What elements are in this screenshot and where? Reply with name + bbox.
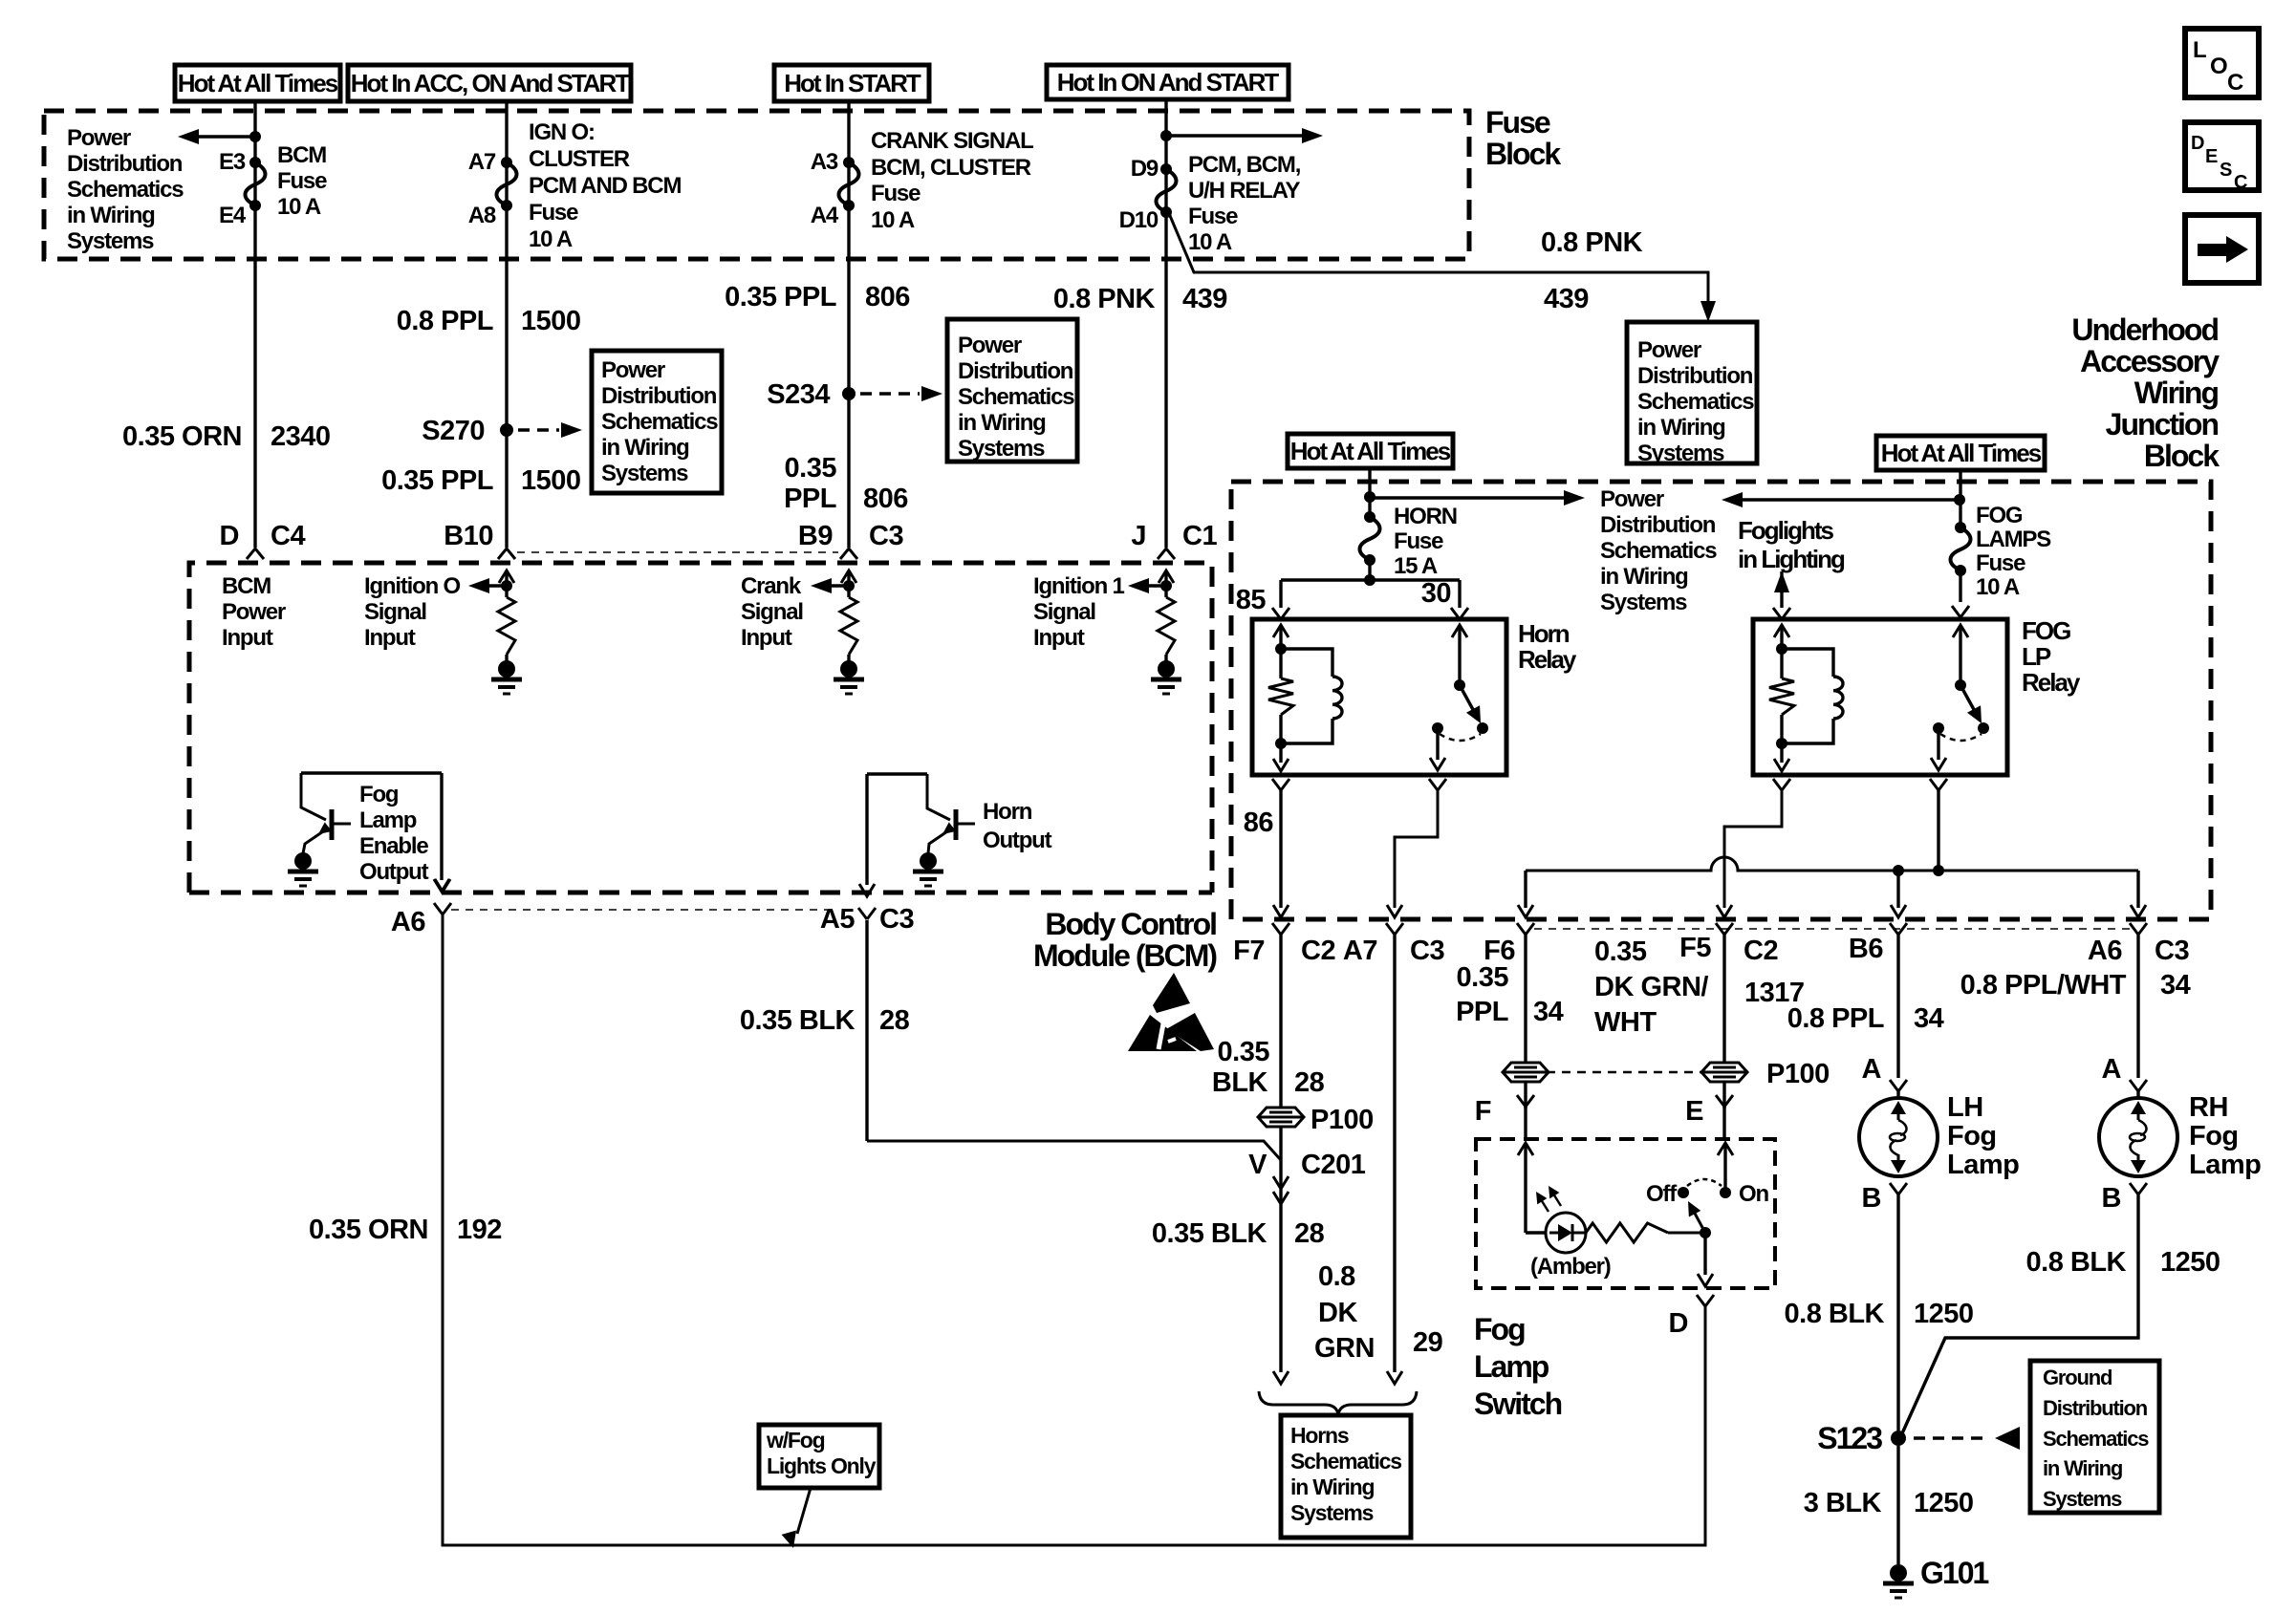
svg-text:0.35 ORN: 0.35 ORN: [309, 1215, 428, 1245]
svg-text:1250: 1250: [1914, 1488, 1974, 1518]
svg-text:FOG: FOG: [2022, 616, 2070, 645]
svg-text:1500: 1500: [521, 465, 581, 496]
svg-text:w/Fog: w/Fog: [766, 1428, 825, 1453]
svg-text:Fuse: Fuse: [1394, 528, 1443, 554]
svg-text:A4: A4: [811, 203, 839, 228]
svg-text:in Wiring: in Wiring: [1637, 415, 1725, 441]
svg-text:806: 806: [865, 282, 910, 312]
svg-text:Input: Input: [364, 625, 416, 651]
svg-text:Block: Block: [2144, 439, 2220, 473]
svg-text:0.8 BLK: 0.8 BLK: [1785, 1299, 1885, 1329]
svg-text:Fuse: Fuse: [529, 200, 578, 226]
svg-text:Horn: Horn: [1518, 619, 1570, 648]
svg-text:Body Control: Body Control: [1045, 907, 1216, 941]
svg-text:A5: A5: [820, 904, 855, 935]
svg-text:E4: E4: [219, 203, 247, 228]
svg-text:PCM, BCM,: PCM, BCM,: [1188, 152, 1301, 178]
svg-text:10 A: 10 A: [871, 207, 915, 233]
svg-text:0.35: 0.35: [1218, 1037, 1270, 1067]
svg-text:Input: Input: [1033, 625, 1085, 651]
svg-text:Fuse: Fuse: [1976, 550, 2025, 576]
svg-text:in Wiring: in Wiring: [958, 410, 1046, 436]
svg-text:Output: Output: [983, 828, 1052, 853]
svg-text:BCM: BCM: [277, 142, 326, 168]
svg-text:Systems: Systems: [1290, 1500, 1374, 1525]
svg-text:Power: Power: [67, 125, 131, 151]
svg-text:Distribution: Distribution: [958, 358, 1073, 384]
svg-text:Block: Block: [1485, 137, 1561, 171]
svg-text:Ignition O: Ignition O: [364, 573, 461, 599]
svg-text:3 BLK: 3 BLK: [1804, 1488, 1882, 1518]
svg-text:Power: Power: [222, 599, 286, 625]
svg-text:C3: C3: [2155, 936, 2189, 966]
svg-text:29: 29: [1413, 1327, 1443, 1358]
svg-text:Distribution: Distribution: [67, 151, 183, 177]
svg-text:0.8 PNK: 0.8 PNK: [1541, 227, 1643, 258]
svg-text:D: D: [1669, 1308, 1688, 1339]
svg-text:in Lighting: in Lighting: [1738, 545, 1845, 573]
svg-text:34: 34: [1533, 997, 1564, 1027]
svg-text:PCM AND BCM: PCM AND BCM: [529, 173, 681, 199]
svg-text:Distribution: Distribution: [1637, 363, 1753, 389]
svg-text:Lamp: Lamp: [359, 807, 417, 833]
svg-text:Wiring: Wiring: [2134, 376, 2219, 410]
svg-text:BCM, CLUSTER: BCM, CLUSTER: [871, 155, 1031, 181]
svg-text:439: 439: [1544, 284, 1589, 314]
svg-text:Hot At All Times: Hot At All Times: [178, 69, 338, 97]
svg-text:RH: RH: [2189, 1092, 2228, 1123]
svg-text:Systems: Systems: [2043, 1487, 2122, 1511]
svg-text:1250: 1250: [2160, 1247, 2220, 1278]
svg-text:PPL: PPL: [784, 484, 836, 514]
svg-text:S234: S234: [767, 379, 830, 410]
svg-text:Schematics: Schematics: [1290, 1449, 1401, 1474]
svg-text:0.35 BLK: 0.35 BLK: [740, 1005, 856, 1036]
svg-text:B: B: [1862, 1183, 1881, 1214]
svg-text:A3: A3: [811, 149, 838, 175]
svg-text:Ignition 1: Ignition 1: [1033, 573, 1125, 599]
svg-text:Output: Output: [359, 859, 429, 885]
svg-text:Horn: Horn: [983, 799, 1032, 825]
svg-text:in Wiring: in Wiring: [67, 203, 155, 228]
svg-text:Lamp: Lamp: [2189, 1150, 2261, 1180]
svg-text:D10: D10: [1119, 207, 1159, 233]
svg-text:Relay: Relay: [1518, 645, 1577, 674]
svg-text:34: 34: [2160, 970, 2191, 1001]
svg-text:O: O: [2210, 54, 2227, 79]
svg-text:Systems: Systems: [67, 228, 154, 254]
svg-text:0.8 PNK: 0.8 PNK: [1053, 284, 1156, 314]
svg-text:B10: B10: [444, 521, 493, 551]
svg-text:DK GRN/: DK GRN/: [1594, 972, 1708, 1002]
svg-text:10 A: 10 A: [1976, 574, 2020, 600]
svg-text:L: L: [2193, 37, 2206, 63]
svg-text:LH: LH: [1947, 1092, 1983, 1123]
svg-text:C: C: [2234, 172, 2247, 193]
svg-text:Accessory: Accessory: [2080, 344, 2220, 378]
svg-text:(Amber): (Amber): [1530, 1254, 1611, 1280]
svg-text:1250: 1250: [1914, 1299, 1974, 1329]
svg-text:15 A: 15 A: [1394, 553, 1438, 579]
svg-text:34: 34: [1914, 1003, 1944, 1034]
svg-text:P100: P100: [1310, 1105, 1374, 1135]
svg-text:Fog: Fog: [2189, 1121, 2239, 1151]
svg-text:Schematics: Schematics: [1600, 538, 1717, 564]
svg-text:0.8 PPL: 0.8 PPL: [397, 306, 493, 336]
svg-text:G101: G101: [1920, 1556, 1988, 1590]
svg-text:FOG: FOG: [1976, 503, 2023, 528]
svg-text:Lamp: Lamp: [1947, 1150, 2019, 1180]
svg-text:C3: C3: [869, 521, 903, 551]
svg-text:CRANK SIGNAL: CRANK SIGNAL: [871, 128, 1033, 154]
svg-text:Hot In ON And START: Hot In ON And START: [1057, 68, 1280, 97]
svg-text:A7: A7: [1343, 936, 1377, 966]
svg-text:Foglights: Foglights: [1738, 516, 1834, 545]
svg-text:Hot At All Times: Hot At All Times: [1290, 437, 1451, 465]
svg-text:Signal: Signal: [364, 599, 426, 625]
svg-text:0.35 BLK: 0.35 BLK: [1152, 1218, 1267, 1249]
svg-text:Hot In ACC, ON And START: Hot In ACC, ON And START: [351, 69, 631, 97]
svg-text:C3: C3: [879, 904, 914, 935]
svg-text:Ground: Ground: [2043, 1366, 2112, 1389]
svg-text:Schematics: Schematics: [1637, 389, 1754, 415]
svg-text:Junction: Junction: [2106, 407, 2219, 441]
svg-text:Underhood: Underhood: [2071, 312, 2218, 347]
svg-text:0.8 PPL: 0.8 PPL: [1787, 1003, 1884, 1034]
svg-text:Systems: Systems: [958, 436, 1045, 462]
svg-text:DK: DK: [1318, 1298, 1357, 1328]
svg-text:Hot In START: Hot In START: [784, 69, 921, 97]
svg-text:28: 28: [1294, 1218, 1325, 1249]
svg-text:Signal: Signal: [1033, 599, 1095, 625]
svg-text:Relay: Relay: [2022, 668, 2081, 697]
svg-text:IGN O:: IGN O:: [529, 119, 595, 145]
svg-text:Power: Power: [1637, 337, 1701, 363]
svg-text:Distribution: Distribution: [2043, 1396, 2148, 1420]
svg-text:B6: B6: [1849, 934, 1883, 964]
svg-text:D9: D9: [1131, 156, 1159, 182]
svg-text:Crank: Crank: [741, 573, 802, 599]
svg-text:E: E: [2205, 146, 2218, 167]
svg-text:Fuse: Fuse: [1485, 105, 1550, 140]
svg-text:Fog: Fog: [359, 782, 399, 807]
svg-text:0.8 PPL/WHT: 0.8 PPL/WHT: [1960, 970, 2127, 1001]
svg-text:A7: A7: [468, 149, 496, 175]
svg-text:Horns: Horns: [1290, 1423, 1349, 1448]
svg-text:Schematics: Schematics: [601, 409, 718, 435]
svg-text:0.35 PPL: 0.35 PPL: [725, 282, 836, 312]
svg-text:Systems: Systems: [1637, 441, 1724, 466]
svg-text:C: C: [2227, 70, 2243, 96]
svg-text:439: 439: [1182, 284, 1227, 314]
svg-text:A6: A6: [391, 907, 425, 937]
svg-text:GRN: GRN: [1314, 1333, 1375, 1364]
svg-text:in Wiring: in Wiring: [2043, 1456, 2122, 1480]
svg-text:30: 30: [1421, 578, 1451, 609]
svg-text:On: On: [1739, 1181, 1768, 1207]
svg-text:C4: C4: [271, 521, 305, 551]
svg-text:10 A: 10 A: [277, 194, 321, 220]
svg-text:Input: Input: [741, 625, 792, 651]
svg-text:PPL: PPL: [1456, 997, 1508, 1027]
svg-text:F: F: [1475, 1096, 1491, 1127]
svg-text:Fog: Fog: [1947, 1121, 1997, 1151]
svg-text:0.8 BLK: 0.8 BLK: [2026, 1247, 2127, 1278]
svg-text:Signal: Signal: [741, 599, 803, 625]
svg-text:P100: P100: [1766, 1059, 1830, 1089]
svg-text:0.35: 0.35: [785, 453, 837, 484]
svg-text:0.8: 0.8: [1318, 1261, 1355, 1292]
svg-text:Fuse: Fuse: [1188, 204, 1238, 229]
svg-text:in Wiring: in Wiring: [601, 435, 689, 461]
svg-text:Lights Only: Lights Only: [767, 1453, 877, 1478]
svg-text:F5: F5: [1679, 933, 1711, 963]
svg-text:Systems: Systems: [1600, 590, 1687, 615]
svg-text:C2: C2: [1301, 936, 1335, 966]
svg-text:2340: 2340: [271, 421, 331, 452]
svg-text:192: 192: [457, 1215, 502, 1245]
svg-text:S123: S123: [1817, 1421, 1882, 1455]
svg-text:86: 86: [1244, 807, 1274, 838]
svg-text:CLUSTER: CLUSTER: [529, 146, 630, 172]
svg-text:U/H RELAY: U/H RELAY: [1188, 178, 1301, 204]
svg-text:J: J: [1131, 521, 1146, 551]
svg-text:0.35 ORN: 0.35 ORN: [122, 421, 242, 452]
svg-text:D: D: [220, 521, 239, 551]
svg-text:E3: E3: [219, 149, 246, 175]
svg-text:0.35: 0.35: [1457, 962, 1509, 993]
svg-text:B: B: [2102, 1183, 2121, 1214]
svg-text:F7: F7: [1233, 936, 1265, 966]
svg-text:Off: Off: [1646, 1181, 1678, 1207]
svg-text:A: A: [2102, 1054, 2122, 1085]
svg-text:28: 28: [879, 1005, 910, 1036]
svg-text:Fuse: Fuse: [871, 181, 921, 206]
svg-text:V: V: [1248, 1150, 1267, 1180]
svg-text:Fuse: Fuse: [277, 168, 327, 194]
svg-text:Switch: Switch: [1474, 1387, 1562, 1421]
svg-text:Distribution: Distribution: [601, 383, 717, 409]
svg-text:BLK: BLK: [1212, 1067, 1268, 1098]
svg-text:Enable: Enable: [359, 833, 428, 859]
svg-text:Hot At All Times: Hot At All Times: [1881, 439, 2042, 467]
svg-text:Systems: Systems: [601, 461, 688, 486]
svg-text:D: D: [2191, 133, 2204, 154]
svg-text:HORN: HORN: [1394, 504, 1457, 529]
svg-text:Input: Input: [222, 625, 273, 651]
svg-text:BCM: BCM: [222, 573, 271, 599]
svg-text:Distribution: Distribution: [1600, 512, 1716, 538]
svg-text:0.35 PPL: 0.35 PPL: [381, 465, 493, 496]
svg-text:A8: A8: [468, 203, 496, 228]
svg-text:C3: C3: [1410, 936, 1444, 966]
svg-text:10 A: 10 A: [529, 226, 573, 252]
svg-text:806: 806: [863, 484, 908, 514]
svg-text:Schematics: Schematics: [958, 384, 1074, 410]
svg-text:Power: Power: [601, 357, 665, 383]
svg-text:A6: A6: [2088, 936, 2122, 966]
svg-text:10 A: 10 A: [1188, 229, 1232, 255]
svg-text:C1: C1: [1182, 521, 1217, 551]
svg-text:1500: 1500: [521, 306, 581, 336]
svg-text:Schematics: Schematics: [2043, 1427, 2149, 1451]
svg-text:B9: B9: [798, 521, 833, 551]
svg-text:Module (BCM): Module (BCM): [1033, 938, 1217, 973]
svg-text:Power: Power: [958, 333, 1022, 358]
svg-text:85: 85: [1236, 585, 1267, 615]
svg-text:Schematics: Schematics: [67, 177, 184, 203]
svg-text:LAMPS: LAMPS: [1976, 527, 2051, 552]
svg-text:in Wiring: in Wiring: [1290, 1474, 1375, 1499]
svg-text:LP: LP: [2022, 642, 2051, 671]
svg-text:in Wiring: in Wiring: [1600, 564, 1688, 590]
svg-text:Power: Power: [1600, 486, 1664, 512]
svg-text:E: E: [1685, 1096, 1703, 1127]
svg-text:WHT: WHT: [1594, 1007, 1657, 1038]
svg-text:S270: S270: [422, 416, 485, 446]
svg-text:C201: C201: [1301, 1150, 1366, 1180]
svg-text:Lamp: Lamp: [1474, 1349, 1549, 1384]
svg-text:0.35: 0.35: [1594, 936, 1647, 967]
svg-text:C2: C2: [1744, 936, 1778, 966]
svg-text:A: A: [1862, 1054, 1882, 1085]
svg-text:Fog: Fog: [1474, 1312, 1525, 1346]
svg-text:S: S: [2220, 160, 2232, 181]
svg-text:28: 28: [1294, 1067, 1325, 1098]
